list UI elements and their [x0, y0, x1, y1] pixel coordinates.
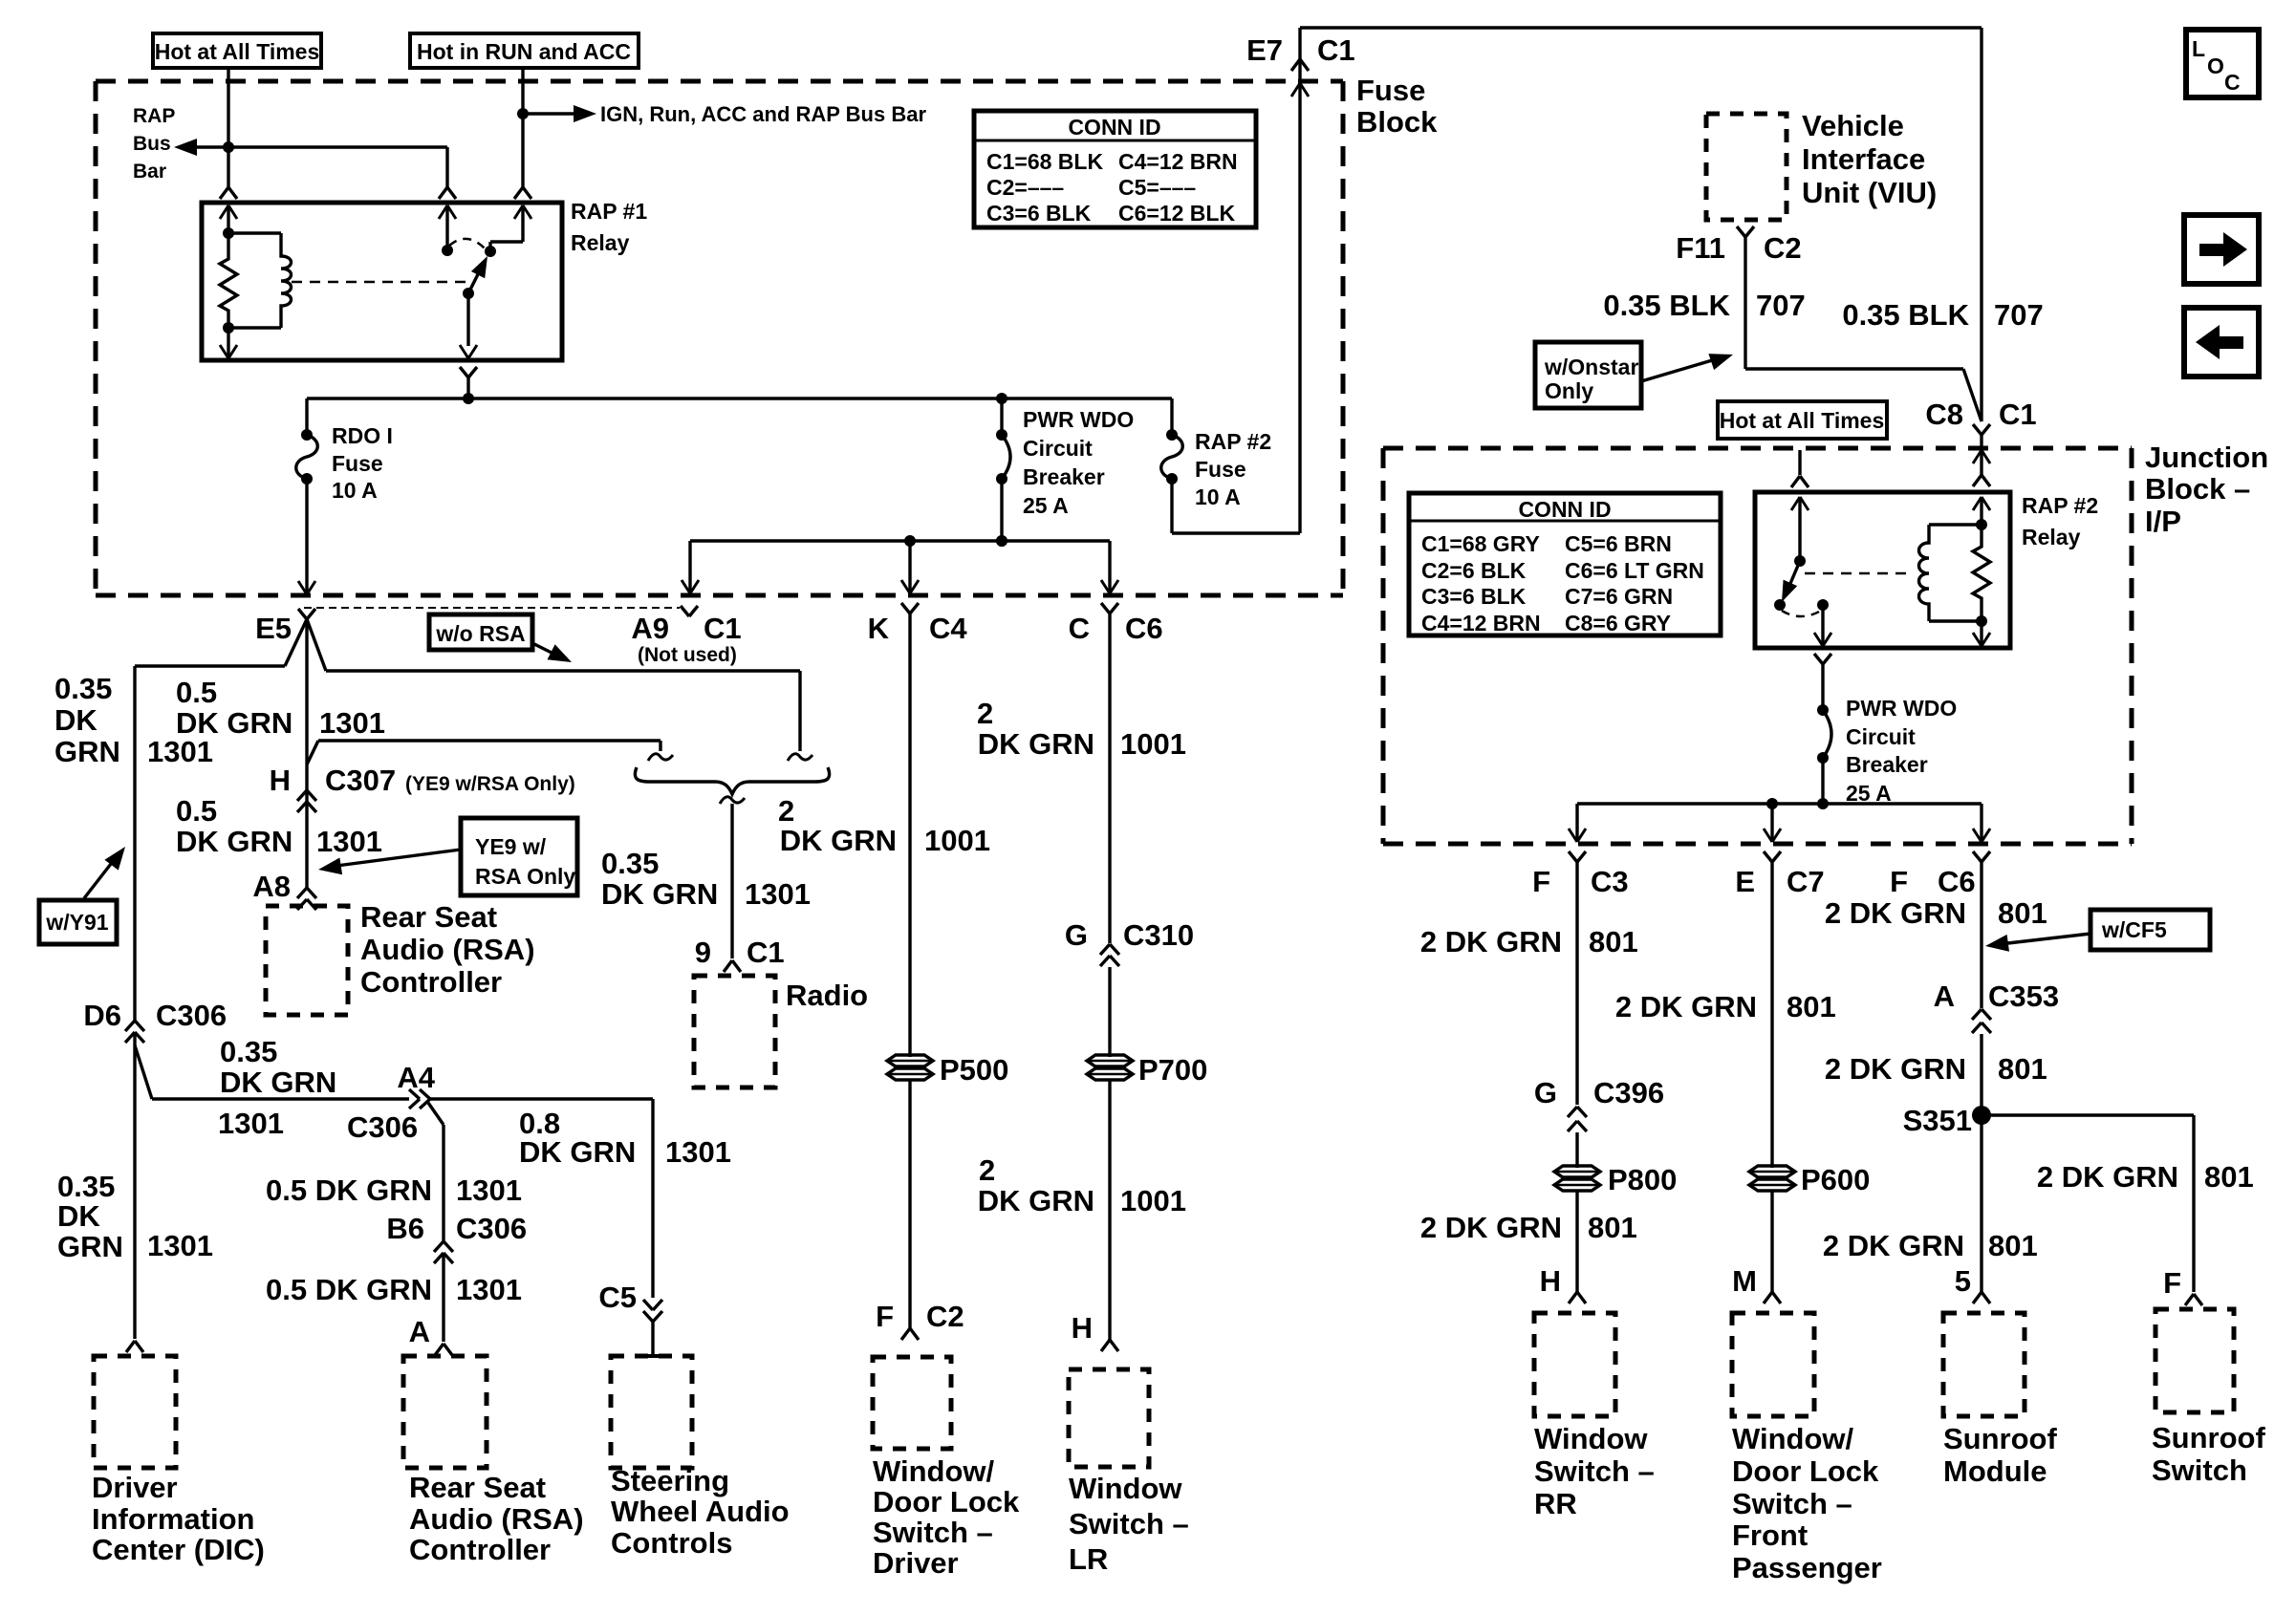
svg-text:2 DK GRN: 2 DK GRN: [1420, 1211, 1562, 1244]
svg-text:DK GRN: DK GRN: [220, 1066, 336, 1099]
svg-text:C3: C3: [1591, 865, 1629, 898]
svg-text:C6=6 LT GRN: C6=6 LT GRN: [1565, 558, 1704, 583]
svg-text:C8=6 GRY: C8=6 GRY: [1565, 611, 1671, 635]
svg-text:0.5 DK GRN: 0.5 DK GRN: [266, 1273, 432, 1306]
svg-text:CONN ID: CONN ID: [1068, 115, 1160, 140]
svg-text:H: H: [270, 764, 291, 797]
svg-text:1301: 1301: [316, 825, 382, 858]
svg-text:2: 2: [979, 1153, 995, 1187]
svg-text:H: H: [1540, 1264, 1561, 1298]
svg-text:A: A: [1934, 980, 1955, 1013]
svg-text:C4: C4: [929, 612, 967, 645]
svg-text:DK: DK: [57, 1199, 100, 1233]
svg-text:Circuit: Circuit: [1846, 724, 1916, 749]
svg-text:C2=–––: C2=–––: [986, 175, 1064, 200]
svg-text:GRN: GRN: [54, 735, 120, 768]
svg-text:DK GRN: DK GRN: [176, 825, 292, 858]
svg-text:L: L: [2192, 36, 2205, 61]
svg-text:A4: A4: [397, 1061, 435, 1094]
svg-text:Front: Front: [1732, 1518, 1808, 1552]
svg-text:0.35 BLK: 0.35 BLK: [1603, 289, 1730, 322]
svg-text:GRN: GRN: [57, 1230, 123, 1263]
svg-text:DK GRN: DK GRN: [780, 824, 897, 857]
svg-text:C1: C1: [704, 612, 742, 645]
svg-text:H: H: [1072, 1311, 1093, 1345]
svg-text:A: A: [409, 1315, 430, 1348]
svg-text:C8: C8: [1925, 398, 1963, 431]
svg-text:801: 801: [1588, 1211, 1637, 1244]
svg-text:LR: LR: [1069, 1542, 1108, 1576]
svg-text:801: 801: [1988, 1229, 2038, 1262]
svg-text:Sunroof: Sunroof: [2152, 1421, 2265, 1454]
svg-text:Junction: Junction: [2145, 441, 2268, 474]
svg-text:C2: C2: [1764, 231, 1802, 265]
svg-text:F: F: [1532, 865, 1550, 898]
svg-text:2 DK GRN: 2 DK GRN: [1615, 990, 1757, 1023]
svg-text:1301: 1301: [319, 706, 385, 740]
svg-text:Block –: Block –: [2145, 472, 2250, 506]
svg-text:801: 801: [2204, 1160, 2254, 1194]
svg-text:Window: Window: [1069, 1472, 1182, 1505]
svg-text:1001: 1001: [924, 824, 990, 857]
svg-text:Switch –: Switch –: [1069, 1507, 1189, 1540]
svg-text:Unit (VIU): Unit (VIU): [1802, 176, 1937, 209]
svg-text:C1=68 GRY: C1=68 GRY: [1421, 531, 1540, 556]
svg-text:5: 5: [1955, 1264, 1971, 1298]
svg-text:C306: C306: [456, 1212, 527, 1245]
svg-text:C1: C1: [1999, 398, 2037, 431]
svg-text:D6: D6: [83, 999, 121, 1032]
svg-text:C4=12 BRN: C4=12 BRN: [1118, 149, 1238, 174]
svg-text:DK GRN: DK GRN: [176, 706, 292, 740]
svg-text:C5=–––: C5=–––: [1118, 175, 1196, 200]
svg-text:F: F: [2163, 1266, 2181, 1300]
svg-text:C1=68 BLK: C1=68 BLK: [986, 149, 1103, 174]
svg-text:C307: C307: [325, 764, 396, 797]
svg-text:2 DK GRN: 2 DK GRN: [2037, 1160, 2178, 1194]
svg-text:10 A: 10 A: [332, 478, 378, 503]
svg-text:1301: 1301: [456, 1174, 522, 1207]
svg-text:707: 707: [1994, 298, 2044, 332]
svg-text:Center (DIC): Center (DIC): [92, 1533, 265, 1566]
svg-text:2: 2: [778, 794, 794, 828]
svg-text:E: E: [1735, 865, 1755, 898]
svg-text:IGN, Run, ACC and RAP Bus Bar: IGN, Run, ACC and RAP Bus Bar: [600, 102, 926, 126]
svg-text:Switch –: Switch –: [1534, 1454, 1655, 1488]
svg-text:B6: B6: [386, 1212, 424, 1245]
svg-text:2 DK GRN: 2 DK GRN: [1420, 925, 1562, 958]
svg-text:F: F: [1890, 865, 1908, 898]
svg-text:Rear Seat: Rear Seat: [409, 1471, 546, 1504]
svg-text:0.35 BLK: 0.35 BLK: [1842, 298, 1969, 332]
svg-text:CONN ID: CONN ID: [1518, 497, 1611, 522]
svg-text:Radio: Radio: [786, 979, 868, 1012]
svg-text:(YE9 w/RSA Only): (YE9 w/RSA Only): [405, 773, 575, 795]
svg-text:P800: P800: [1608, 1163, 1677, 1196]
svg-text:Bus: Bus: [133, 133, 171, 155]
svg-text:C2: C2: [926, 1300, 964, 1333]
svg-text:C396: C396: [1593, 1076, 1664, 1109]
svg-text:2 DK GRN: 2 DK GRN: [1823, 1229, 1964, 1262]
svg-text:C7: C7: [1787, 865, 1825, 898]
svg-text:Only: Only: [1545, 378, 1593, 403]
svg-text:Driver: Driver: [92, 1471, 178, 1504]
svg-text:25 A: 25 A: [1023, 493, 1069, 518]
svg-text:801: 801: [1787, 990, 1836, 1023]
svg-text:C306: C306: [156, 999, 227, 1032]
svg-text:1001: 1001: [1120, 1184, 1186, 1217]
svg-text:PWR WDO: PWR WDO: [1846, 696, 1957, 721]
svg-text:O: O: [2207, 54, 2224, 78]
svg-text:Switch: Switch: [2152, 1453, 2247, 1487]
svg-text:C: C: [1069, 612, 1090, 645]
svg-text:Door Lock: Door Lock: [1732, 1454, 1879, 1488]
svg-text:Information: Information: [92, 1502, 255, 1536]
svg-text:Wheel Audio: Wheel Audio: [611, 1495, 790, 1528]
svg-text:Relay: Relay: [2022, 525, 2081, 549]
svg-text:0.35: 0.35: [601, 847, 659, 880]
svg-text:0.35: 0.35: [57, 1170, 115, 1203]
svg-text:Hot at All Times: Hot at All Times: [1720, 408, 1885, 433]
svg-text:C3=6 BLK: C3=6 BLK: [1421, 584, 1527, 609]
svg-text:G: G: [1534, 1076, 1557, 1109]
svg-text:0.35: 0.35: [54, 672, 112, 705]
svg-text:RAP #1: RAP #1: [571, 199, 647, 224]
svg-text:Rear Seat: Rear Seat: [360, 900, 497, 934]
svg-text:RAP #2: RAP #2: [1195, 429, 1271, 454]
svg-text:Fuse: Fuse: [332, 451, 383, 476]
svg-text:Window/: Window/: [1732, 1422, 1854, 1455]
svg-text:Fuse: Fuse: [1195, 457, 1246, 482]
svg-text:1301: 1301: [147, 735, 213, 768]
svg-text:0.5: 0.5: [176, 676, 217, 709]
svg-text:C: C: [2224, 70, 2241, 95]
svg-text:1301: 1301: [745, 877, 811, 911]
svg-text:PWR WDO: PWR WDO: [1023, 407, 1134, 432]
svg-text:Sunroof: Sunroof: [1943, 1422, 2057, 1455]
svg-text:1001: 1001: [1120, 727, 1186, 761]
svg-text:F: F: [876, 1300, 894, 1333]
svg-text:DK GRN: DK GRN: [601, 877, 718, 911]
svg-text:25 A: 25 A: [1846, 781, 1892, 806]
svg-text:801: 801: [1589, 925, 1638, 958]
svg-text:Block: Block: [1356, 105, 1438, 139]
svg-text:S351: S351: [1903, 1104, 1972, 1137]
svg-text:Vehicle: Vehicle: [1802, 109, 1904, 142]
svg-text:F11: F11: [1676, 231, 1725, 265]
svg-text:C3=6 BLK: C3=6 BLK: [986, 201, 1092, 226]
svg-text:Window/: Window/: [873, 1454, 995, 1488]
svg-text:10 A: 10 A: [1195, 484, 1241, 509]
svg-text:Circuit: Circuit: [1023, 436, 1093, 461]
svg-text:Interface: Interface: [1802, 142, 1925, 176]
svg-text:E5: E5: [255, 612, 292, 645]
svg-text:Window: Window: [1534, 1422, 1648, 1455]
svg-text:DK: DK: [54, 703, 97, 737]
svg-text:Breaker: Breaker: [1846, 752, 1928, 777]
svg-text:I/P: I/P: [2145, 505, 2181, 538]
svg-text:E7: E7: [1246, 33, 1283, 67]
svg-text:Bar: Bar: [133, 161, 166, 183]
svg-text:C1: C1: [747, 936, 785, 969]
svg-text:801: 801: [1998, 1052, 2047, 1086]
svg-text:Audio (RSA): Audio (RSA): [409, 1502, 584, 1536]
svg-text:RAP #2: RAP #2: [2022, 493, 2098, 518]
svg-text:1301: 1301: [456, 1273, 522, 1306]
svg-text:G: G: [1065, 918, 1088, 952]
svg-text:w/CF5: w/CF5: [2101, 917, 2167, 942]
svg-text:Door Lock: Door Lock: [873, 1485, 1020, 1518]
svg-text:2 DK GRN: 2 DK GRN: [1825, 896, 1966, 930]
svg-text:DK GRN: DK GRN: [519, 1135, 636, 1169]
svg-text:C310: C310: [1123, 918, 1194, 952]
svg-text:0.5: 0.5: [176, 794, 217, 828]
svg-text:C306: C306: [347, 1110, 418, 1144]
svg-text:Breaker: Breaker: [1023, 464, 1105, 489]
svg-text:1301: 1301: [218, 1107, 284, 1140]
svg-text:YE9 w/: YE9 w/: [475, 834, 547, 859]
svg-text:C5=6 BRN: C5=6 BRN: [1565, 531, 1672, 556]
svg-text:w/o RSA: w/o RSA: [435, 621, 525, 646]
svg-text:Controller: Controller: [409, 1533, 551, 1566]
svg-text:C5: C5: [598, 1281, 637, 1314]
svg-text:C1: C1: [1317, 33, 1355, 67]
svg-text:801: 801: [1998, 896, 2047, 930]
svg-text:RAP: RAP: [133, 105, 175, 127]
svg-text:C6: C6: [1125, 612, 1163, 645]
svg-text:Hot at All Times: Hot at All Times: [155, 39, 320, 64]
svg-text:2: 2: [977, 697, 993, 730]
svg-text:w/Y91: w/Y91: [45, 910, 108, 935]
svg-text:Fuse: Fuse: [1356, 74, 1425, 107]
svg-text:707: 707: [1756, 289, 1806, 322]
svg-text:Module: Module: [1943, 1454, 2047, 1488]
svg-text:C2=6 BLK: C2=6 BLK: [1421, 558, 1527, 583]
svg-text:Relay: Relay: [571, 230, 630, 255]
svg-text:1301: 1301: [147, 1229, 213, 1262]
svg-text:Hot in RUN and ACC: Hot in RUN and ACC: [417, 39, 631, 64]
svg-text:Passenger: Passenger: [1732, 1551, 1882, 1584]
svg-text:Switch –: Switch –: [1732, 1487, 1852, 1520]
svg-text:0.5 DK GRN: 0.5 DK GRN: [266, 1174, 432, 1207]
svg-text:Driver: Driver: [873, 1546, 959, 1580]
svg-text:DK GRN: DK GRN: [978, 1184, 1094, 1217]
svg-text:P600: P600: [1801, 1163, 1870, 1196]
svg-text:(Not used): (Not used): [638, 644, 737, 666]
svg-text:C6: C6: [1938, 865, 1976, 898]
svg-text:A9: A9: [631, 612, 669, 645]
svg-text:Controller: Controller: [360, 965, 502, 999]
svg-text:2 DK GRN: 2 DK GRN: [1825, 1052, 1966, 1086]
svg-text:P700: P700: [1138, 1053, 1207, 1087]
svg-text:C4=12 BRN: C4=12 BRN: [1421, 611, 1541, 635]
svg-text:C6=12 BLK: C6=12 BLK: [1118, 201, 1235, 226]
svg-text:C7=6 GRN: C7=6 GRN: [1565, 584, 1673, 609]
svg-text:Audio (RSA): Audio (RSA): [360, 933, 535, 966]
svg-text:RSA Only: RSA Only: [475, 864, 575, 889]
svg-text:1301: 1301: [665, 1135, 731, 1169]
svg-text:RDO I: RDO I: [332, 423, 393, 448]
svg-text:A8: A8: [252, 870, 291, 903]
svg-text:K: K: [868, 612, 890, 645]
svg-text:0.35: 0.35: [220, 1035, 277, 1068]
svg-text:RR: RR: [1534, 1487, 1577, 1520]
svg-text:9: 9: [695, 936, 711, 969]
svg-text:Steering: Steering: [611, 1464, 729, 1497]
svg-text:P500: P500: [940, 1053, 1008, 1087]
svg-text:Switch –: Switch –: [873, 1516, 993, 1549]
svg-text:w/Onstar: w/Onstar: [1544, 355, 1638, 379]
svg-text:DK GRN: DK GRN: [978, 727, 1094, 761]
svg-text:Controls: Controls: [611, 1526, 732, 1560]
svg-text:C353: C353: [1988, 980, 2059, 1013]
svg-text:M: M: [1732, 1264, 1757, 1298]
